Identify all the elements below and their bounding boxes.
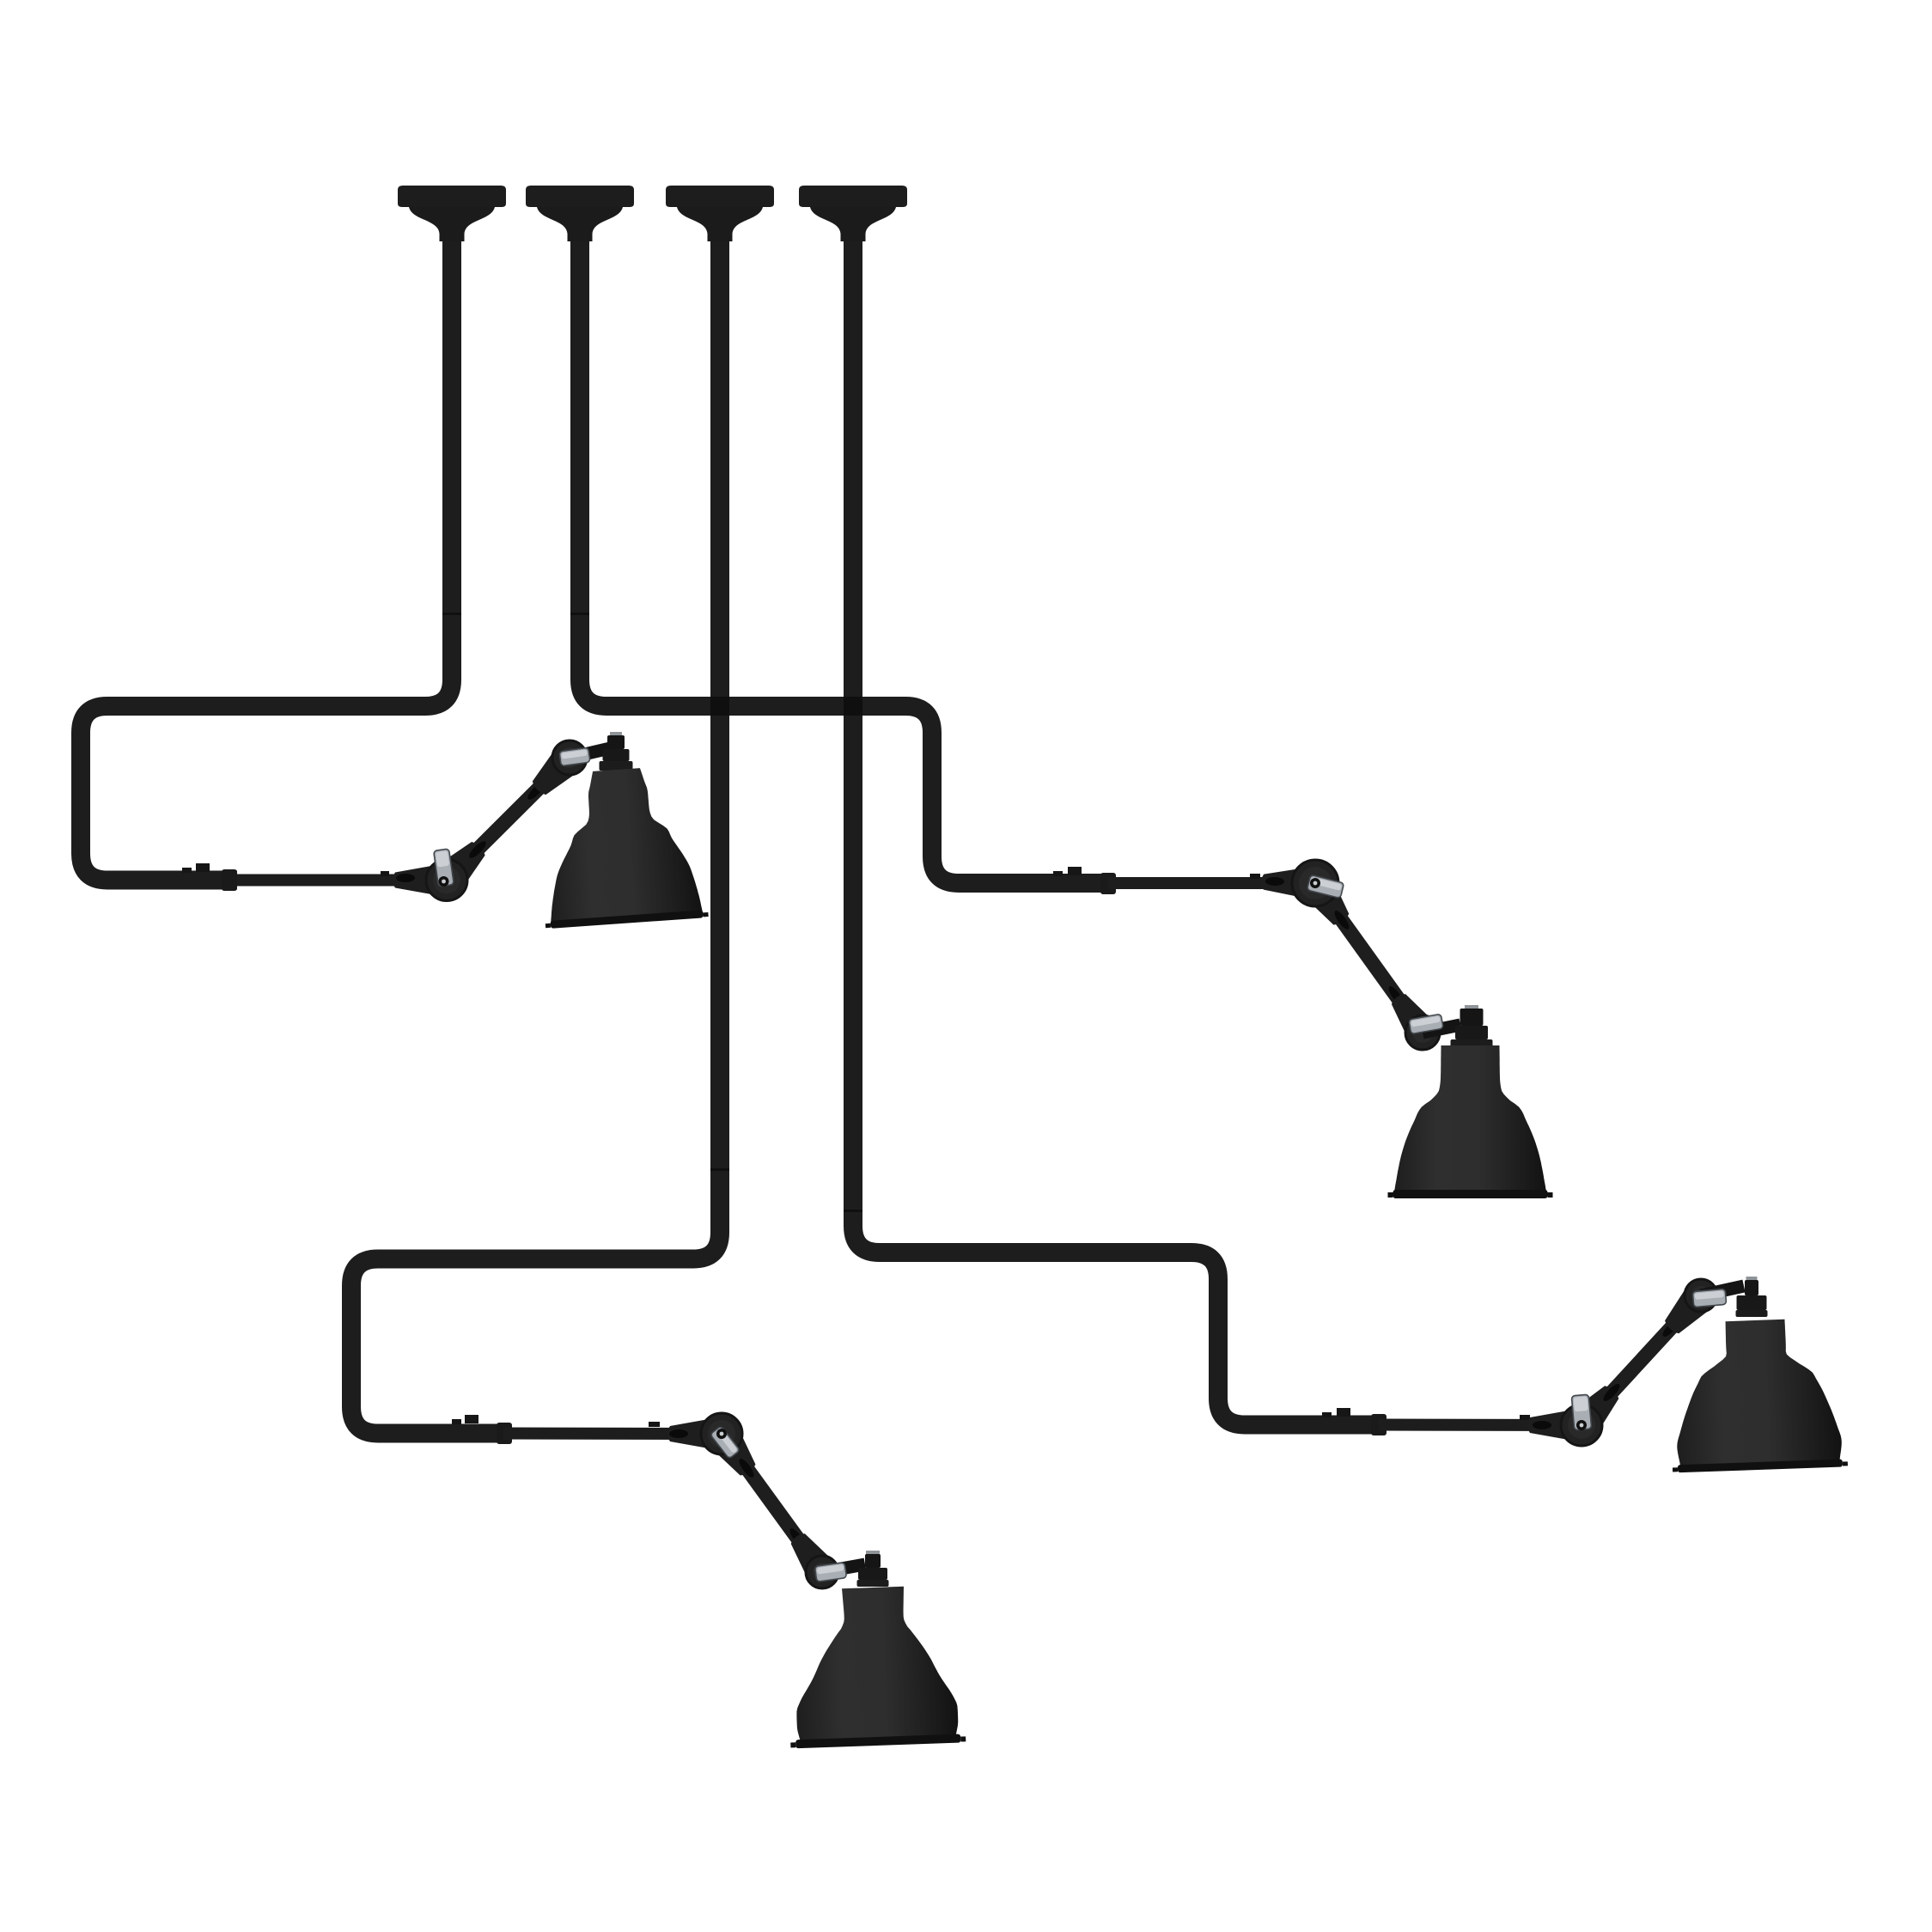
socket lamp 1 bbox=[610, 732, 622, 738]
pipe run lamp 4 bbox=[351, 241, 720, 1434]
canopy 3 bbox=[666, 186, 774, 207]
bar tab lamp 1 bbox=[381, 871, 389, 876]
forearm lamp 2 bbox=[1315, 883, 1423, 1033]
head clip lamp 3 bbox=[1692, 1289, 1726, 1307]
head bracket lamp 1 bbox=[570, 748, 610, 758]
elbow joint lamp 2 bbox=[1292, 860, 1338, 906]
bar tab lamp 4 bbox=[649, 1422, 660, 1427]
pipe run lamp 3 bbox=[853, 241, 1374, 1425]
union sleeve lamp 2 bbox=[1100, 873, 1116, 894]
canopy 4 bbox=[799, 186, 907, 207]
socket lamp 2 bbox=[1465, 1005, 1478, 1011]
telescopic bar lamp 4 bbox=[503, 1428, 722, 1441]
pipe run lamp 1 bbox=[81, 241, 452, 881]
elbow clip lamp 1 bbox=[434, 849, 454, 887]
shade lamp 4 bbox=[785, 1584, 966, 1748]
union sleeve lamp 3 bbox=[1371, 1414, 1387, 1435]
head joint lamp 4 bbox=[783, 1527, 832, 1578]
union sleeve lamp 1 bbox=[222, 869, 237, 891]
clamp tab lamp 4 bbox=[452, 1419, 461, 1424]
head bracket lamp 4 bbox=[822, 1564, 865, 1572]
canopy 2 bbox=[526, 186, 634, 207]
elbow clip lamp 2 bbox=[1307, 875, 1344, 898]
elbow clip lamp 3 bbox=[1571, 1394, 1591, 1430]
elbow joint lamp 4 bbox=[701, 1413, 742, 1454]
forearm lamp 4 bbox=[722, 1434, 822, 1572]
forearm lamp 3 bbox=[1582, 1295, 1701, 1425]
shade lamp 2 bbox=[1388, 1045, 1553, 1198]
socket lamp 3 bbox=[1746, 1277, 1758, 1283]
head clip lamp 4 bbox=[814, 1563, 846, 1582]
union sleeve lamp 4 bbox=[497, 1423, 512, 1444]
shade lamp 1 bbox=[535, 764, 709, 929]
pipe seam lamp 1 bbox=[442, 613, 461, 615]
head joint lamp 2 bbox=[1385, 988, 1434, 1039]
elbow joint lamp 1 bbox=[426, 860, 467, 901]
clamp tab lamp 1 bbox=[182, 868, 192, 873]
telescopic bar lamp 2 bbox=[1108, 877, 1315, 889]
head clip lamp 2 bbox=[1409, 1014, 1443, 1033]
pipe seam lamp 2 bbox=[570, 613, 589, 615]
bar tab lamp 2 bbox=[1250, 874, 1260, 879]
clamp tab lamp 2 bbox=[1053, 871, 1063, 876]
socket lamp 4 bbox=[866, 1551, 880, 1557]
pipe seam lamp 4 bbox=[710, 1168, 729, 1171]
canopy 1 bbox=[398, 186, 506, 207]
telescopic bar lamp 1 bbox=[237, 875, 447, 887]
shade lamp 3 bbox=[1667, 1317, 1848, 1472]
pipe run lamp 2 bbox=[580, 241, 1104, 883]
pipe crossing node A bbox=[710, 697, 729, 716]
head bracket lamp 2 bbox=[1423, 1025, 1460, 1033]
clamp tab lamp 3 bbox=[1322, 1412, 1332, 1417]
pipe seam lamp 3 bbox=[844, 1210, 862, 1212]
head bracket lamp 3 bbox=[1701, 1286, 1744, 1295]
telescopic bar lamp 3 bbox=[1379, 1419, 1582, 1432]
elbow joint lamp 3 bbox=[1561, 1405, 1602, 1446]
pipe crossing node B bbox=[844, 697, 862, 716]
elbow clip lamp 4 bbox=[710, 1426, 740, 1459]
head joint lamp 1 bbox=[526, 748, 579, 801]
head joint lamp 3 bbox=[1658, 1287, 1710, 1340]
bar tab lamp 3 bbox=[1520, 1415, 1530, 1420]
forearm lamp 1 bbox=[447, 758, 570, 881]
head clip lamp 1 bbox=[559, 747, 590, 766]
